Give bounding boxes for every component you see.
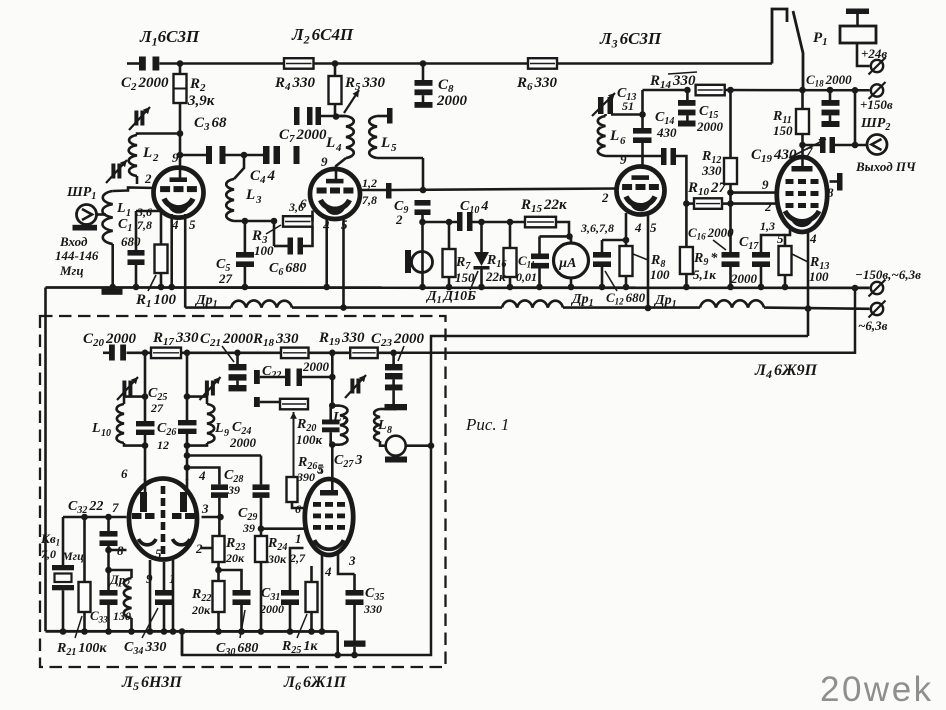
resistor R8 [620,246,633,287]
pin label 2 of Л5 [195,541,203,556]
svg-text:R1522к: R1522к [520,197,567,215]
pin label 8 of Л4 [827,185,834,200]
grid cap bar pin8 of Л4 [830,173,843,191]
label R12 330 [701,149,722,178]
wire R14 row [643,89,870,92]
svg-text:2: 2 [144,171,152,186]
resistor R7 [443,222,456,287]
wire Л4 pin7/R11 [801,134,804,168]
svg-text:R1100: R1100 [135,292,177,310]
resistor R13 [779,246,792,287]
tube label Л1 6С3П [139,27,200,49]
svg-text:5: 5 [650,220,657,235]
svg-text:С6680: С6680 [269,261,306,278]
resistor R25 [306,566,318,632]
svg-text:Д1Д10Б: Д1Д10Б [425,289,476,306]
wire Л3 pin4/R8 [625,213,628,246]
node junction on bus [507,284,514,291]
label C18 2000 [806,72,852,89]
svg-text:2000: 2000 [229,435,257,450]
wire top row of bottom section [103,351,394,354]
node junction C32 top [105,514,112,521]
capacitor C5 [236,221,254,287]
svg-text:20wek: 20wek [820,670,934,709]
capacitor C6 loop [274,221,313,255]
svg-text:С182000: С182000 [806,72,852,89]
capacitor C8 with chassis bar [415,64,433,108]
pin labels 4 5 of Л3 [634,220,657,235]
label Др1 c [653,293,677,310]
node junction bus/loop [179,628,186,635]
dashed enclosure box [40,316,446,667]
label C8 2000 [436,77,468,109]
node junction C21 [234,350,241,357]
inductor L1 [102,188,156,291]
label R20 100к [296,417,323,447]
label P1 [813,30,828,48]
label R3 100 [251,225,281,258]
resistor R16 [504,222,517,287]
pin label 1 of Л6 [295,531,302,546]
wire R19 junction down to L7 [331,353,334,406]
jack circle of L8 link [386,436,431,456]
label C15 2000 [696,104,724,134]
node junction L9 bottom [184,442,191,449]
wire pin2 of Л5 [201,547,213,550]
node junction heater/Л4 [805,305,812,312]
svg-text:R5330: R5330 [344,75,386,93]
svg-text:3,9к: 3,9к [187,93,215,109]
node junction on calibrator bus [287,628,294,635]
label R16 22к [485,253,506,284]
terminal -150в [869,280,886,297]
label C31 2000 [259,586,284,616]
label R7 150 [455,255,475,285]
svg-text:4: 4 [198,468,206,483]
resistor R3 [283,211,313,227]
wire left wrap to calibrator [44,288,47,632]
node junction R11/bus [799,87,806,94]
svg-text:150: 150 [455,270,475,285]
wire calibrator bus drop left [181,632,184,656]
svg-text:20к: 20к [191,603,211,617]
wire Л2 grid-cap [359,189,386,192]
label R17 330 [152,330,199,348]
Л5 cathodes [139,539,191,545]
pin label 6 of Л5 [121,466,128,481]
node junction on calibrator bus [258,628,265,635]
wire ~6,3в loop [182,336,808,655]
node junction R16 [507,219,514,226]
label C13 51 [617,86,636,113]
capacitor C18 with chassis bar [822,90,840,127]
trimmer capacitor on L9 [200,377,221,400]
caption Рис. 1 [465,415,509,434]
label L4 [325,135,342,154]
label R25 1к [281,614,318,656]
svg-text:27: 27 [218,271,233,286]
label C22 [262,359,330,381]
resistor R11 [796,90,809,134]
svg-text:6: 6 [620,135,626,147]
wire Л1 cathode node [136,210,163,213]
node junction on bus [242,284,249,291]
terminal +150в [869,82,886,99]
svg-text:4: 4 [322,218,330,233]
svg-text:7,0: 7,0 [41,547,56,561]
node junction -150в loop [852,285,859,292]
svg-text:8: 8 [387,425,392,436]
label C9 2 [394,199,408,227]
diode Д1 Д10Б [474,222,490,287]
label C14 430 [655,110,677,140]
svg-text:430: 430 [656,125,677,140]
svg-text:R19330: R19330 [318,330,365,348]
label C11 0,01 [516,253,537,284]
wire -150в loop [394,288,855,353]
node junction L7 bottom [329,441,336,448]
label C34 330 [124,608,166,657]
node junction L7 top [329,402,336,409]
pin labels 2 1,3 of Л4 [760,199,775,233]
label C33 130 [90,608,131,625]
svg-text:6: 6 [300,196,307,211]
resistor R22 [213,581,225,632]
label 3,6 above R3 [288,200,304,214]
pin label 7 of Л4 [806,144,813,159]
wire Л4 pin5/R13 [785,228,790,246]
pin label 9 of Л2 [321,154,328,169]
node junction R23/R22 [215,567,222,574]
svg-text:L: L [91,421,101,436]
relay coil P1 [840,26,876,43]
pin labels 4 5 of Л1 [171,217,196,232]
capacitor C27 parallel [322,406,340,445]
wire to Л4 pin9 [731,191,776,194]
connector ШР2 [867,135,887,155]
tube Л5 envelope [129,479,197,560]
label C28 39 [224,468,243,497]
svg-text:L: L [609,128,619,144]
capacitor C22 row [254,369,336,387]
wiper arrow R20/R26 [290,412,297,477]
capacitor C30 [219,570,251,632]
node junction C19 left [799,142,806,149]
svg-text:С34330: С34330 [124,640,166,657]
svg-text:9: 9 [762,177,769,192]
inductor L8 [374,409,395,446]
svg-text:330: 330 [701,163,722,178]
wire L9 tank to C29 [184,452,261,459]
node junction R17/C26 line [142,350,149,357]
plate bar above L8 [385,404,408,410]
pin label 9 of Л3 [620,152,627,167]
svg-text:5,1к: 5,1к [693,267,716,282]
wire Л2 pin5 to heater row [342,216,345,308]
node junction on calibrator bus [128,628,135,635]
wire Л6 pin4 [321,553,324,632]
wire heater row [185,308,869,309]
Л5 shield dashes [161,486,166,554]
label С12 680 on heater row [605,271,646,307]
tube Л1 [154,168,204,218]
node junction on bus [599,284,606,291]
trimmer capacitor C25 [117,377,138,400]
pin label 3 of Л6 [348,553,356,568]
svg-text:9: 9 [224,428,229,439]
tube label Л5 6Н3П [121,674,182,693]
svg-text:9: 9 [620,152,627,167]
node junction jack tap [428,442,435,449]
node junction on bus [683,284,690,291]
node junction on bus [419,284,426,291]
label C35 330 [363,586,384,616]
label C10 4 [460,199,488,216]
svg-text:С30680: С30680 [216,641,258,658]
Л5 left anode [140,479,147,512]
node junction on calibrator bus [161,628,168,635]
svg-text:3: 3 [348,553,356,568]
tube Л3 [617,167,665,215]
node junction on calibrator bus [238,628,245,635]
capacitor C34 [155,562,173,632]
node junction C33/Др2 [105,567,112,574]
label R18 330 [252,331,299,349]
label C25 27 [148,386,167,415]
node junction C11/meter [566,233,573,240]
capacitor C14 [633,128,652,167]
wire AGC grid line Л2 to Л3 [392,189,617,191]
pin label 3 of Л5 [201,501,209,516]
svg-text:Л36С3П: Л36С3П [599,29,662,50]
node junction C23 [390,350,397,357]
svg-text:L: L [380,135,390,151]
svg-text:L: L [116,201,126,216]
svg-text:R17330: R17330 [152,330,199,348]
svg-text:100к: 100к [296,432,323,447]
svg-text:5: 5 [155,546,162,561]
node junction on bus [323,284,330,291]
wire -150в bus [46,286,870,289]
resistor R15 [525,217,556,228]
label C6 680 [269,261,306,278]
switch contact flag [772,9,787,64]
svg-text:µА: µА [558,256,576,271]
label R24 30к [267,536,287,566]
trimmer capacitor on L1 [106,160,127,183]
svg-text:4: 4 [809,231,817,246]
svg-text:7,8: 7,8 [362,193,377,207]
label L7 [332,410,348,428]
trimmer capacitor on L2 [129,107,150,130]
tube label Л2 6С4П [291,25,354,46]
pin labels 4 5 of Л2 [322,217,348,233]
svg-text:R4330: R4330 [274,75,316,93]
svg-text:Выход ПЧ: Выход ПЧ [855,159,917,174]
label L2 [142,145,159,164]
resistor R1 [155,211,168,287]
svg-text:2: 2 [152,152,159,164]
node junction on calibrator bus [81,628,88,635]
capacitor C16 [722,204,740,287]
capacitor C7 [294,107,345,125]
resistor R9* [680,247,693,287]
label R23 20к [225,536,245,565]
node junction on bus [623,284,630,291]
svg-text:1,2: 1,2 [362,176,377,190]
wire calibrator bus drop right [334,632,341,659]
resistor R20 row [254,397,308,409]
resistor R24 [255,536,267,632]
svg-text:4: 4 [335,142,342,154]
node junction pin9 wire [727,189,734,196]
svg-text:Л16С3П: Л16С3П [139,27,200,49]
node junction on bus [158,284,165,291]
svg-text:L: L [142,145,152,161]
label L8 [377,418,392,436]
wire ШР1 to L1 [97,213,107,216]
wire pin3 row [202,514,224,521]
label C2 2000 [121,75,169,93]
tube label Л4 6Ж9П [754,362,818,381]
label R8 100 [633,253,670,282]
svg-text:+24в: +24в [861,46,887,61]
capacitor C15 with chassis bar [678,90,696,127]
capacitor C28 [184,464,228,536]
wire pin8 of Л5 [105,547,126,554]
node junction on calibrator bus [308,628,315,635]
svg-text:1,3: 1,3 [760,219,775,233]
wire Л5 pin1 [172,560,175,632]
capacitor C3 [206,146,226,164]
capacitor C33 [100,590,118,632]
svg-text:L: L [377,418,387,433]
svg-text:4: 4 [324,564,332,579]
node junction on bus [133,284,140,291]
label R22 20к [191,587,211,617]
node junction on bus [568,284,575,291]
node junction C8/top-bus [420,60,427,67]
node junction R3/C6 [271,218,278,225]
node junction L3 tap [241,152,248,159]
svg-text:2000: 2000 [696,119,724,134]
capacitor C11 [531,236,549,287]
svg-text:100: 100 [809,269,829,284]
node junction on bus [446,284,453,291]
node junction jack [419,219,426,226]
svg-text:2000: 2000 [302,359,330,374]
chassis bar under ШР1 [73,225,98,231]
label C17 [730,235,759,286]
capacitor C26 in line [136,353,155,480]
tube Л4 [777,157,827,232]
svg-text:5: 5 [391,142,397,154]
label C21 2000 [200,331,254,362]
node junction R10/R12 [727,200,734,207]
node junction heater/Л3 [645,305,652,312]
svg-text:4: 4 [634,220,642,235]
capacitor C1 [128,211,145,287]
resistor R19 [350,348,378,359]
inductor L2 [129,130,184,184]
node junction R18/C24 line [184,350,191,357]
meter µA [554,236,589,287]
wire L5 to C9 [422,158,425,190]
svg-text:С22000: С22000 [121,75,169,93]
node junction L10 bottom [142,442,149,449]
pin label 6 of Л2 [300,196,307,211]
node junction on bus [727,284,734,291]
svg-text:7,8: 7,8 [137,218,152,232]
wire to C13 [611,113,643,116]
labels 3,6,7,8 of Л3 [580,221,614,235]
svg-text:С212000: С212000 [200,331,254,349]
label Кв1 7,0 Мгц [40,531,84,563]
label C32 22 [68,499,103,516]
svg-text:5: 5 [777,231,784,246]
svg-text:R21100к: R21100к [56,641,107,658]
phone jack [405,222,433,287]
label Др2 [109,572,130,589]
label R10 27 [687,180,727,198]
svg-text:Л56Н3П: Л56Н3П [121,674,182,693]
node junction on bus [758,284,765,291]
svg-text:100: 100 [254,243,274,258]
svg-text:2000: 2000 [730,271,758,286]
label L1 [116,201,131,219]
svg-text:9: 9 [321,154,328,169]
Л5 right grid dashes [172,513,195,519]
wire Л1 pin4 to bus [170,214,173,287]
capacitor C2 [139,57,159,71]
wire relay to +24в [857,43,870,66]
svg-text:R6330: R6330 [516,75,558,93]
node junction L9 top [184,393,191,400]
label C7 2000 [279,127,327,145]
svg-text:L: L [214,421,224,436]
resistor R21 [79,517,91,632]
Л6 anode [320,490,338,496]
svg-text:20к: 20к [225,551,245,565]
label C29 39 [238,506,257,535]
capacitor C35 [346,574,364,641]
svg-text:100: 100 [650,267,670,282]
resistor R23 [213,536,225,581]
capacitor C17 [752,235,785,287]
label L9 [214,421,229,439]
wire Л4 pin4 heater drop [807,231,810,336]
label Вход 144-146 Мгц [55,234,99,278]
wire Л2 pin4 to bus [325,216,328,287]
svg-text:−150в,~6,3в: −150в,~6,3в [855,267,921,282]
svg-text:С72000: С72000 [279,127,327,145]
pin label 4 of Л6 [324,564,332,579]
label R19 330 [318,330,365,348]
resistor R12 [724,90,737,204]
capacitor C9 [415,200,431,222]
Л6 grid dashes [313,502,345,530]
node junction R21 top [81,514,88,521]
resistor R6 [528,58,557,68]
svg-text:1: 1 [295,531,302,546]
wire top B+ bus [127,62,772,65]
label R9* 5,1к [693,251,718,282]
svg-text:Л66Ж1П: Л66Ж1П [283,674,347,693]
resistor R10 [686,198,730,209]
Л5 right anode [180,479,187,512]
node junction ШР2 line [852,87,859,148]
resistor R18 [281,348,309,359]
